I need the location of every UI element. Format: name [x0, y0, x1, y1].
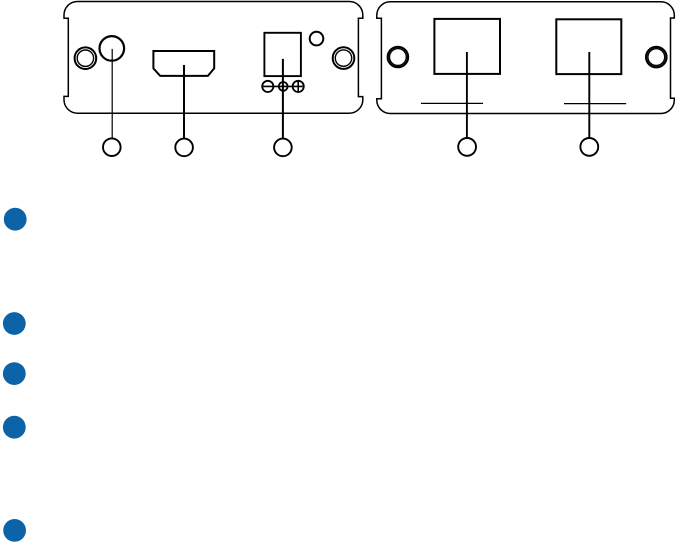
- bullet 4: [3, 416, 26, 439]
- bullet 2: [3, 312, 26, 335]
- left panel outline: [64, 2, 363, 114]
- mounting hole left (right panel) outer ring: [388, 47, 408, 67]
- terminal screw 3 vertical slot: [297, 81, 299, 92]
- RJ45 jack 2: [556, 19, 621, 74]
- bullet 5: [3, 519, 26, 542]
- callout line 4 (jack 1): [466, 52, 468, 137]
- callout circle 4: [458, 138, 476, 156]
- label line under jack 1: [421, 102, 483, 104]
- callout circle 3: [274, 139, 292, 157]
- HDMI connector: [153, 51, 214, 76]
- terminal screw 3: [293, 81, 304, 92]
- callout line 3 (terminal): [282, 59, 284, 138]
- callout circle 5: [580, 138, 598, 156]
- terminal screws horizontal line: [262, 85, 304, 87]
- bullet 3: [3, 362, 26, 385]
- power jack circle: [100, 36, 125, 61]
- mounting hole right (right panel) outer ring: [646, 47, 666, 67]
- mounting hole left (left panel) inner ring: [77, 50, 93, 66]
- terminal block square: [264, 33, 301, 76]
- mounting hole left (right panel) inner ring: [390, 49, 407, 66]
- mounting hole left (left panel) outer ring: [75, 47, 97, 69]
- callout circle 1: [103, 138, 121, 156]
- mounting hole right (right panel) inner ring: [648, 49, 665, 66]
- bullet 1: [4, 208, 27, 231]
- mounting hole right (left panel) outer ring: [333, 47, 355, 69]
- LED indicator: [310, 32, 324, 46]
- RJ45 jack 1: [434, 19, 500, 74]
- callout line 1 (power jack): [111, 49, 113, 138]
- terminal screw 1: [262, 81, 273, 92]
- label line under jack 2: [564, 103, 626, 105]
- callout line 5 (jack 2): [588, 52, 590, 137]
- terminal screw 2: [279, 82, 288, 91]
- callout line 2 (HDMI): [183, 65, 185, 138]
- mounting hole right (left panel) inner ring: [335, 50, 351, 66]
- right panel outline: [377, 2, 675, 114]
- callout circle 2: [175, 139, 193, 157]
